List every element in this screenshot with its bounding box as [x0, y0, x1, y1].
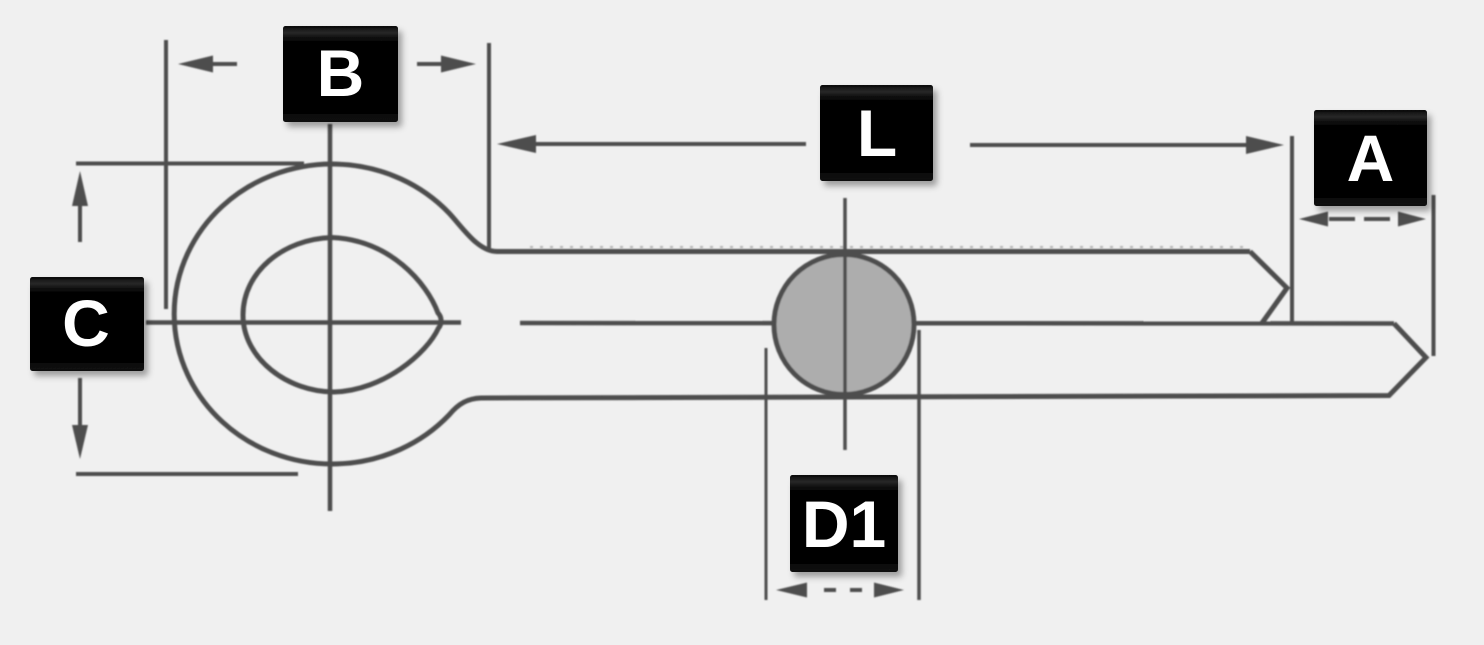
svg-text:L: L [857, 96, 897, 170]
svg-text:B: B [317, 36, 365, 110]
svg-text:C: C [62, 286, 110, 360]
svg-text:D1: D1 [802, 487, 886, 561]
svg-text:A: A [1347, 121, 1395, 195]
